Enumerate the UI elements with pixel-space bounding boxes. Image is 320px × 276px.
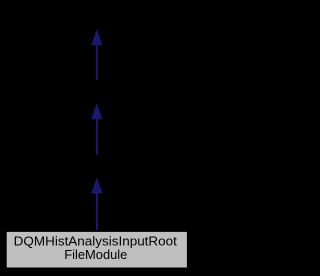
inheritance arrow 3 (bottom) bbox=[91, 177, 102, 230]
node DQMHistAnalysisInputRootFileModule bbox=[6, 231, 187, 268]
inheritance arrow 2 (middle) bbox=[91, 103, 102, 155]
inheritance graph for DQMHistAnalysisInputRootFileModule bbox=[0, 0, 193, 276]
inheritance arrow 1 (top) bbox=[91, 29, 102, 80]
svg-text:FileModule: FileModule bbox=[64, 247, 127, 262]
